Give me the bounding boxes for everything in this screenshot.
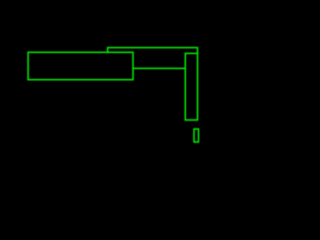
block U3 (small bottom-right rectangle) (194, 129, 199, 142)
block U2 (tall right rectangle) (185, 53, 197, 120)
wire W1 (from top of U1 up and right to top-right corner of U2) (108, 48, 198, 54)
wire W2 (from right side of U1 to left side of U2) (133, 67, 185, 69)
block U1 (main rectangle) (28, 52, 133, 79)
